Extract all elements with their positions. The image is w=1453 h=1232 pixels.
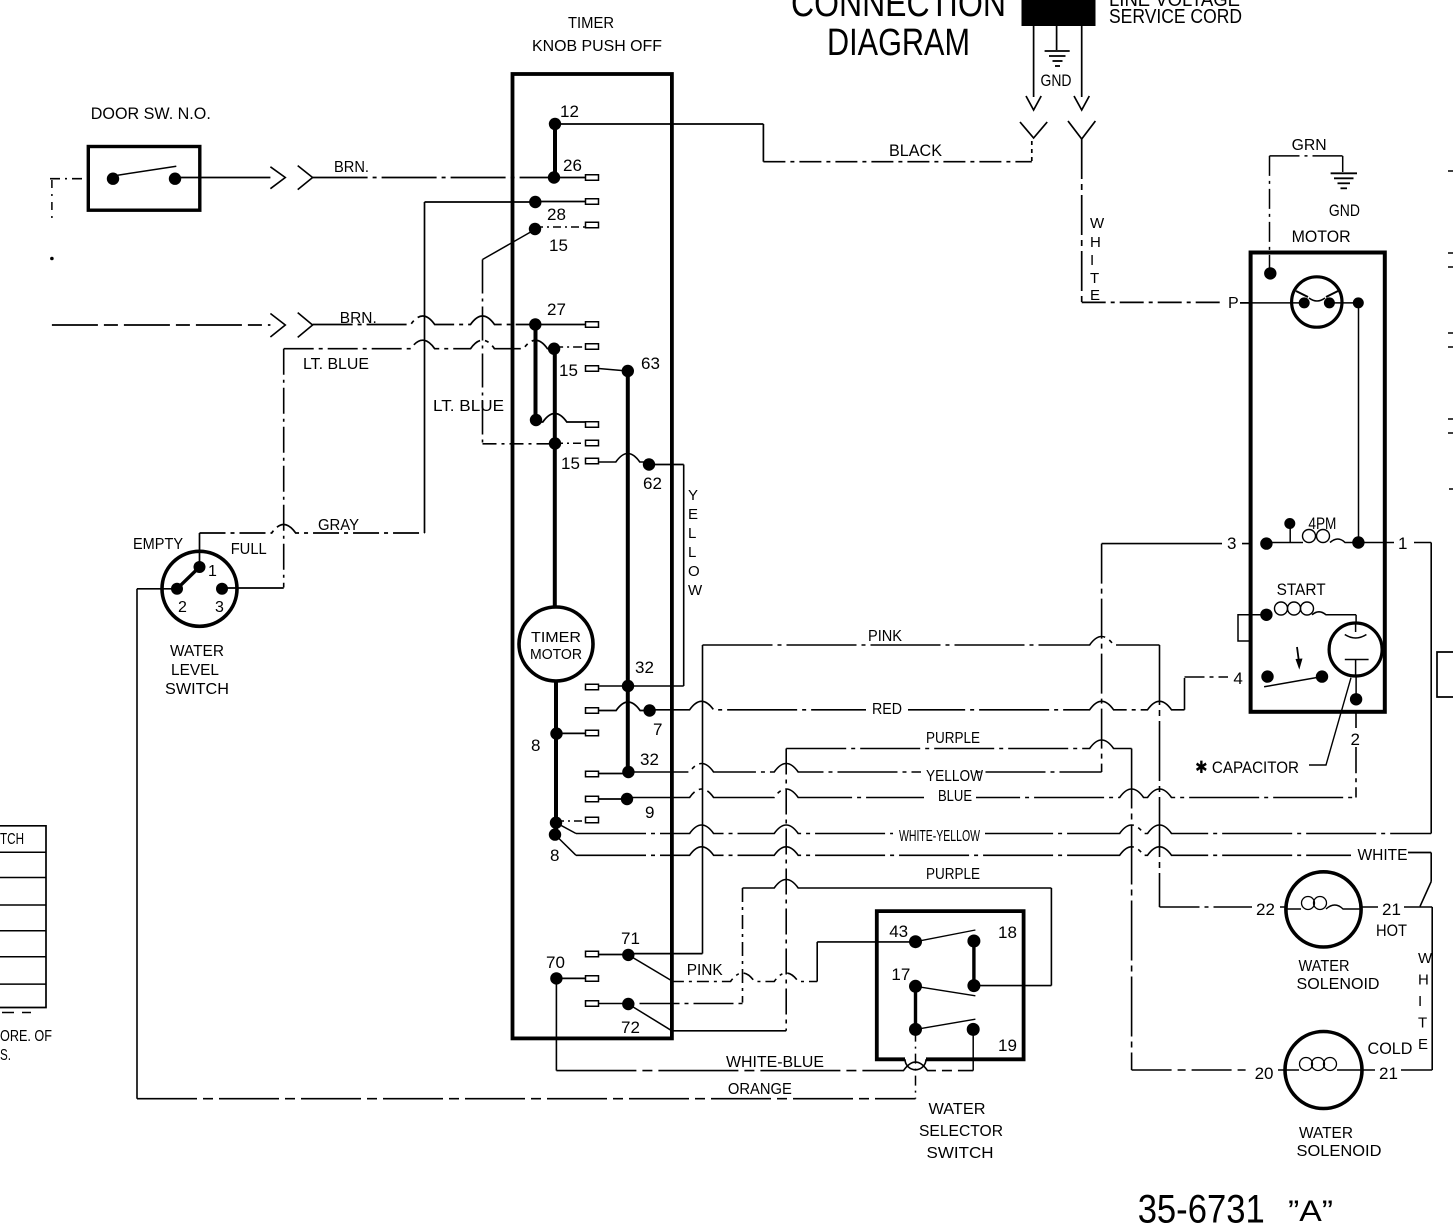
terminal 26 dot xyxy=(548,171,560,183)
cold solenoid coil xyxy=(1285,1058,1362,1071)
pin label 3 motor xyxy=(1222,534,1242,551)
svg-text:E: E xyxy=(1090,287,1100,304)
wire 8bB diagonal xyxy=(555,835,576,856)
motor internal node dot xyxy=(1353,297,1364,308)
wire GRN riser xyxy=(1269,156,1271,274)
wire WHITE-YELLOW row xyxy=(576,825,1431,834)
chevron 1 row BRN1 xyxy=(270,167,285,189)
label WHITE vertical right xyxy=(1418,950,1433,1053)
wire 15a diagonal xyxy=(483,230,536,260)
wire 7 tab link xyxy=(586,702,650,711)
svg-text:KNOB PUSH OFF: KNOB PUSH OFF xyxy=(532,38,662,55)
pin label 21 hot xyxy=(1378,898,1404,916)
svg-text:BRN.: BRN. xyxy=(340,310,377,327)
svg-text:I: I xyxy=(1090,252,1094,269)
selector arm 17 xyxy=(916,986,976,996)
wire to selector 43 xyxy=(817,941,915,943)
wire stub dashed down-left xyxy=(51,180,53,222)
svg-text:BLUE: BLUE xyxy=(938,788,972,805)
svg-text:GND: GND xyxy=(1041,71,1072,90)
svg-text:L: L xyxy=(688,544,696,561)
svg-text:7: 7 xyxy=(653,720,662,739)
svg-text:S.: S. xyxy=(0,1047,11,1064)
label RED xyxy=(866,700,908,717)
timer box xyxy=(513,74,672,1038)
wire 70 tab link xyxy=(556,977,585,979)
motor GRN terminal dot xyxy=(1264,267,1276,279)
wire 8a tab link xyxy=(557,732,586,734)
wire 2 stub xyxy=(1355,676,1357,699)
svg-text:20: 20 xyxy=(1255,1064,1274,1083)
selector 17b dot xyxy=(909,1023,922,1036)
wire 71 to pink riser xyxy=(628,953,702,955)
svg-text:EMPTY: EMPTY xyxy=(133,536,183,553)
svg-text:RED: RED xyxy=(872,701,902,718)
hot solenoid coil xyxy=(1286,897,1361,910)
svg-text:GRN: GRN xyxy=(1292,137,1327,154)
wire ORANGE row xyxy=(137,1098,916,1100)
svg-text:ORE. OF: ORE. OF xyxy=(0,1028,52,1045)
service cord plug xyxy=(1022,0,1096,26)
connector chevron left xyxy=(1020,122,1047,138)
wire white after label xyxy=(1408,852,1431,854)
wire pink riser xyxy=(702,645,704,954)
node dot left stub xyxy=(50,257,54,261)
svg-text:W: W xyxy=(1418,950,1433,967)
wire pink drop xyxy=(1159,645,1161,907)
svg-text:WHITE-BLUE: WHITE-BLUE xyxy=(726,1054,824,1071)
selector 19 dot xyxy=(967,1023,980,1036)
svg-text:62: 62 xyxy=(643,474,662,493)
wire yellow to motor 3 xyxy=(1102,543,1267,545)
wire 28 tab link xyxy=(535,201,585,203)
wire BLACK xyxy=(763,161,1031,163)
start switch internals xyxy=(1345,624,1369,676)
overload protector stub xyxy=(1238,615,1266,641)
svg-text:WATER: WATER xyxy=(1299,958,1350,975)
svg-text:72: 72 xyxy=(621,1018,640,1037)
label WHITE vertical xyxy=(1090,215,1105,304)
svg-text:PINK: PINK xyxy=(868,628,902,645)
svg-text:12: 12 xyxy=(560,102,579,121)
wire purple1 riser xyxy=(785,749,787,1031)
wire WHITE to motor P xyxy=(1082,301,1224,303)
selector arm 43 xyxy=(916,930,976,942)
wire PINK row xyxy=(703,637,1160,646)
svg-text:L: L xyxy=(688,525,696,542)
switch arm 72 xyxy=(628,1004,672,1031)
wire 8bA tab link xyxy=(556,820,586,822)
chevron 2 row BRN2 xyxy=(298,313,313,338)
timer motor circle xyxy=(519,607,593,681)
wire cold 21 to rail xyxy=(1362,1069,1432,1071)
arrow actuator xyxy=(1296,647,1303,670)
svg-text:WATER: WATER xyxy=(170,643,224,660)
svg-text:T: T xyxy=(1090,270,1099,287)
wire 8bA diagonal xyxy=(556,823,576,834)
arrowhead left lead xyxy=(1026,96,1041,110)
wire WHITE row xyxy=(576,847,1352,856)
wire row 420 xyxy=(536,414,586,423)
svg-text:WATER: WATER xyxy=(1299,1125,1353,1142)
wire 12-26 link xyxy=(553,124,557,178)
wire purple2 drop xyxy=(742,888,744,1003)
wire 15b tab link xyxy=(554,346,585,348)
label BLUE xyxy=(924,789,976,806)
wire 32a row xyxy=(586,685,684,687)
wire PURPLE2 row xyxy=(743,880,1052,889)
wire 70 drop xyxy=(555,978,557,1070)
svg-text:E: E xyxy=(1418,1036,1428,1053)
terminal 32a dot xyxy=(622,680,634,692)
wls contact 1 dot xyxy=(194,561,206,573)
wire 15b down-link / timer motor stem xyxy=(553,349,557,607)
wire chevron to BLACK node xyxy=(1031,141,1033,162)
svg-text:17: 17 xyxy=(891,965,910,984)
svg-text:26: 26 xyxy=(563,156,582,175)
terminal 63 dot xyxy=(622,365,634,377)
wire door switch to chevrons xyxy=(175,177,270,179)
terminal 12 dot xyxy=(549,118,561,130)
wire 71 tab link xyxy=(586,954,629,956)
svg-text:P: P xyxy=(1228,295,1239,312)
motor 2 node dot xyxy=(1350,693,1362,705)
wire red riser xyxy=(1184,678,1186,710)
svg-text:W: W xyxy=(1090,215,1105,232)
svg-text:28: 28 xyxy=(547,205,566,224)
terminal 72 dot xyxy=(622,998,634,1010)
svg-text:MOTOR: MOTOR xyxy=(530,646,582,663)
svg-text:32: 32 xyxy=(635,658,654,677)
svg-text:W: W xyxy=(688,582,703,599)
svg-text:H: H xyxy=(1418,972,1429,989)
svg-text:GND: GND xyxy=(1329,201,1360,220)
svg-text:T: T xyxy=(1418,1015,1427,1032)
svg-text:WATER: WATER xyxy=(929,1101,986,1118)
terminal 15b dot xyxy=(548,343,560,355)
svg-text:TIMER: TIMER xyxy=(568,15,614,32)
terminal 15c dot xyxy=(549,437,561,449)
svg-text:2: 2 xyxy=(1351,730,1360,749)
terminal 8bB dot xyxy=(549,828,561,840)
pin label 22 xyxy=(1252,898,1280,916)
ground symbol GND (service cord) xyxy=(1045,51,1070,66)
wire wls 1 riser to GRAY xyxy=(199,533,201,567)
motor start node dot xyxy=(1260,609,1272,621)
wire YELLOW row xyxy=(628,764,1101,773)
selector 18-18b link xyxy=(972,941,975,986)
wire hot 21 row xyxy=(1361,906,1432,908)
svg-text:E: E xyxy=(688,506,698,523)
svg-text:SWITCH: SWITCH xyxy=(927,1145,994,1162)
wire right rail 21-21 xyxy=(1431,907,1433,1070)
wire red to motor 4 xyxy=(1185,676,1268,678)
terminal 8a dot xyxy=(550,727,562,739)
wire 72 arm to riser xyxy=(672,1030,786,1032)
svg-text:TIMER: TIMER xyxy=(531,629,581,646)
terminal 15a dot xyxy=(529,223,541,235)
wire plug left lead xyxy=(1033,26,1035,97)
pin label 1 motor xyxy=(1394,533,1414,551)
label YELLOW xyxy=(921,764,973,781)
motor 1 node dot xyxy=(1352,536,1364,548)
svg-text:DIAGRAM: DIAGRAM xyxy=(827,22,970,64)
svg-text:BRN.: BRN. xyxy=(334,159,369,176)
pin label 21 cold xyxy=(1375,1062,1401,1080)
svg-text:✱ CAPACITOR: ✱ CAPACITOR xyxy=(1195,758,1299,777)
pin label 2 motor xyxy=(1348,728,1368,747)
terminal 9 dot xyxy=(621,793,633,805)
pin label 4 motor xyxy=(1228,668,1248,686)
selector 18b dot xyxy=(967,979,980,992)
terminal 7 dot xyxy=(643,704,655,716)
svg-text:27: 27 xyxy=(547,300,566,319)
pin label 20 xyxy=(1250,1062,1278,1080)
wire wls 2 to left rail xyxy=(137,588,177,590)
wire purple2 to 18b xyxy=(974,985,1052,987)
terminal 32b dot xyxy=(622,766,634,778)
svg-text:YELLOW: YELLOW xyxy=(926,768,984,785)
svg-text:SOLENOID: SOLENOID xyxy=(1297,1143,1382,1160)
capacitor pointer line xyxy=(1309,678,1351,765)
selector 43 dot xyxy=(909,935,922,948)
wire wy riser to motor 1 xyxy=(1430,543,1432,834)
wire plug right lead xyxy=(1081,26,1083,97)
svg-text:PURPLE: PURPLE xyxy=(926,866,980,883)
wire 27 tab link xyxy=(535,324,585,326)
wire BRN2 from left edge xyxy=(52,324,271,326)
timer terminal tabs xyxy=(586,175,599,1007)
label TIMER MOTOR xyxy=(530,629,582,663)
wire switch to node xyxy=(1329,302,1358,304)
wire BLUE row xyxy=(627,789,1356,798)
wire pink2 riser xyxy=(816,942,818,982)
wire 9 row xyxy=(586,798,628,800)
wire into door switch (left, dashed) xyxy=(50,178,88,180)
wire to motor 1 xyxy=(1358,542,1431,544)
4PM stub dot xyxy=(1284,518,1295,529)
label WHITE row xyxy=(1351,845,1413,861)
svg-text:43: 43 xyxy=(889,922,908,941)
terminal 70 dot xyxy=(550,972,562,984)
cropped marks right edge xyxy=(1437,171,1453,697)
wire LT BLUE row to timer 15 xyxy=(284,340,554,349)
selector switch box xyxy=(877,911,1024,1059)
svg-text:8: 8 xyxy=(531,736,540,755)
wire BRN1 to timer 26 xyxy=(313,177,554,179)
wire P into motor box xyxy=(1240,302,1292,304)
wire yellow riser xyxy=(1101,544,1103,772)
wire GRAY xyxy=(200,525,425,534)
label WATER SELECTOR SWITCH xyxy=(919,1101,1003,1162)
wire corner down xyxy=(762,124,764,162)
svg-text:ORANGE: ORANGE xyxy=(728,1081,792,1098)
svg-text:SOLENOID: SOLENOID xyxy=(1297,976,1380,993)
water level switch circle xyxy=(162,551,237,626)
svg-text:21: 21 xyxy=(1379,1064,1398,1083)
wire 15c tab link xyxy=(555,442,586,444)
svg-text:8: 8 xyxy=(550,846,559,865)
wire 32b tab link xyxy=(586,773,629,775)
svg-text:18: 18 xyxy=(998,923,1017,942)
svg-text:15: 15 xyxy=(549,236,568,255)
connector chevron right xyxy=(1068,121,1095,139)
chevron 1 row BRN2 xyxy=(270,314,285,338)
wire pink2 dash xyxy=(672,973,817,982)
switch arm motor 4 xyxy=(1264,677,1322,687)
motor 4 terminal dot xyxy=(1261,670,1273,682)
label YELLOW vertical xyxy=(688,487,703,599)
wire 63 down-link xyxy=(626,371,630,772)
wire 27 down-link xyxy=(534,325,538,421)
wire 62 to yellow xyxy=(649,464,684,466)
wls contact 3 dot xyxy=(216,583,228,595)
wire GRN top xyxy=(1270,155,1343,157)
motor 4 arm dot xyxy=(1316,670,1328,682)
hot solenoid circle xyxy=(1286,872,1361,947)
main winding 4PM coil xyxy=(1266,530,1358,543)
wire pink to solenoid 22 xyxy=(1160,906,1286,908)
centrifugal contact left dot xyxy=(1299,297,1310,308)
svg-text:LT. BLUE: LT. BLUE xyxy=(433,398,504,415)
chevron 2 row BRN1 xyxy=(298,166,313,190)
wire left rail down xyxy=(136,589,138,1099)
selector 18 dot xyxy=(967,935,980,948)
svg-text:22: 22 xyxy=(1256,900,1275,919)
svg-text:71: 71 xyxy=(621,929,640,948)
wire gray riser to 28 xyxy=(424,202,426,533)
svg-text:3: 3 xyxy=(215,599,224,616)
svg-text:H: H xyxy=(1090,234,1101,251)
wire water level 3 riser xyxy=(283,349,285,588)
start switch circle xyxy=(1329,623,1382,676)
svg-text:SELECTOR: SELECTOR xyxy=(919,1123,1003,1140)
svg-text:O: O xyxy=(688,563,700,580)
cold solenoid circle xyxy=(1285,1032,1362,1109)
ground symbol GND (motor) xyxy=(1331,173,1357,188)
svg-text:3: 3 xyxy=(1227,534,1236,553)
terminal 8bA dot xyxy=(550,817,562,829)
wls contact 2 dot xyxy=(171,583,183,595)
svg-text:START: START xyxy=(1277,580,1326,599)
svg-text:PINK: PINK xyxy=(687,962,723,979)
wire 17b drop xyxy=(915,1032,917,1099)
terminal 27 dot xyxy=(529,318,541,330)
wire wls 3 to riser xyxy=(222,587,284,589)
wire WHITE-BLUE row xyxy=(556,1062,973,1071)
svg-text:PURPLE: PURPLE xyxy=(926,730,980,747)
svg-text:BLACK: BLACK xyxy=(889,141,943,160)
svg-text:2: 2 xyxy=(178,599,187,616)
wire blue riser to 2 xyxy=(1355,699,1357,797)
svg-text:”A”: ”A” xyxy=(1288,1195,1333,1228)
terminal 62 dot xyxy=(643,458,655,470)
door switch contact right xyxy=(169,173,181,185)
svg-text:1: 1 xyxy=(208,563,217,580)
wire white drop xyxy=(1430,853,1432,882)
switch arm 71 xyxy=(628,955,672,981)
arrowhead right lead xyxy=(1074,96,1089,110)
svg-text:32: 32 xyxy=(640,750,659,769)
door switch box xyxy=(88,147,200,211)
svg-text:DOOR SW. N.O.: DOOR SW. N.O. xyxy=(91,104,211,123)
svg-text:TCH: TCH xyxy=(0,831,24,848)
wire BRN2 to timer 27 xyxy=(313,316,536,325)
door switch arm xyxy=(116,166,176,175)
door switch contact left xyxy=(107,173,119,185)
svg-text:LEVEL: LEVEL xyxy=(171,662,219,679)
label WATER SOLENOID hot xyxy=(1297,958,1380,993)
svg-text:I: I xyxy=(1418,993,1422,1010)
wire yellow drop xyxy=(683,465,685,687)
svg-text:COLD: COLD xyxy=(1368,1039,1413,1058)
svg-text:LT. BLUE: LT. BLUE xyxy=(303,356,369,373)
wire timer 12 to corner xyxy=(555,123,763,125)
wire RED row xyxy=(650,701,1185,710)
svg-text:HOT: HOT xyxy=(1376,921,1407,940)
svg-text:SWITCH: SWITCH xyxy=(165,681,229,698)
svg-text:15: 15 xyxy=(561,454,580,473)
svg-text:15: 15 xyxy=(559,361,578,380)
centrifugal contact right dot xyxy=(1324,297,1335,308)
svg-text:21: 21 xyxy=(1382,900,1401,919)
wire GRN to ground xyxy=(1342,156,1344,172)
wire 3 stub xyxy=(1289,528,1291,543)
selector arm 17b xyxy=(916,1019,976,1029)
wire WHITE vertical xyxy=(1081,139,1083,302)
wire purple1 to solenoid 20 xyxy=(1132,1069,1286,1071)
start winding coil xyxy=(1266,602,1356,615)
wire timer motor lower stem xyxy=(554,681,558,835)
motor 3 terminal dot xyxy=(1260,537,1272,549)
svg-text:35-6731: 35-6731 xyxy=(1138,1188,1265,1232)
svg-text:1: 1 xyxy=(1398,534,1407,553)
svg-text:SERVICE CORD: SERVICE CORD xyxy=(1109,6,1242,28)
wire LT BLUE2 to 15c xyxy=(483,443,556,445)
svg-text:9: 9 xyxy=(645,803,654,822)
wire white diagonal to 21 xyxy=(1420,882,1431,907)
wire motor node drop xyxy=(1358,303,1360,543)
svg-text:WHITE: WHITE xyxy=(1358,847,1408,864)
selector 17 dot xyxy=(909,980,922,993)
label WATER SOLENOID cold xyxy=(1297,1125,1382,1160)
svg-text:70: 70 xyxy=(546,953,565,972)
motor box xyxy=(1251,253,1385,712)
svg-text:4: 4 xyxy=(1233,669,1242,688)
wire 19 drop xyxy=(972,1032,974,1071)
wire start to circle xyxy=(1355,615,1357,624)
selector 17-17b link xyxy=(914,986,917,1029)
svg-text:WHITE-YELLOW: WHITE-YELLOW xyxy=(899,828,981,845)
wire LT BLUE2 riser xyxy=(482,260,484,445)
ground stub from plug xyxy=(1056,26,1058,50)
svg-text:19: 19 xyxy=(998,1036,1017,1055)
wire 63 tab link xyxy=(599,369,628,372)
wire 28 row xyxy=(425,201,536,203)
motor centrifugal switch circle xyxy=(1292,277,1342,327)
svg-text:FULL: FULL xyxy=(231,541,267,558)
wire purple1 drop xyxy=(1131,749,1133,1071)
cropped table (left edge) xyxy=(0,826,46,1013)
wire 72 row xyxy=(586,1003,743,1005)
svg-text:63: 63 xyxy=(641,354,660,373)
terminal d420 dot xyxy=(530,414,542,426)
terminal 28 dot xyxy=(529,196,541,208)
label WATER LEVEL SWITCH xyxy=(165,643,229,698)
label WHITE-YELLOW xyxy=(893,825,985,842)
svg-text:MOTOR: MOTOR xyxy=(1292,227,1351,246)
wire P inside to switch xyxy=(1251,302,1305,304)
